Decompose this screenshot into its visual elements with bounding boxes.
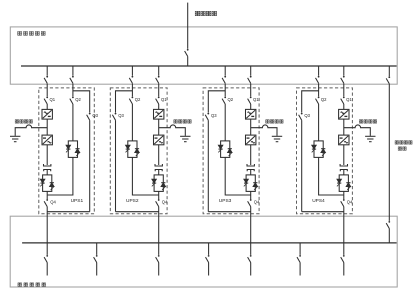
switch: input-cabinet breaker for UPS2 bypass feed	[129, 76, 133, 84]
svg-text:Q2: Q2	[321, 97, 327, 102]
wire: Q2 to bypass static switch of UPS4	[318, 104, 320, 141]
static switch (SCR pair) bypass of UPS1	[66, 141, 80, 158]
switch: input-cabinet breaker for UPS4 rectifier feed	[341, 76, 345, 84]
static switch (SCR pair) main of UPS2	[152, 175, 166, 192]
battery bank symbol (ground-style) of UPS4	[365, 136, 375, 141]
UPS1 cabinet (dashed box)	[39, 88, 95, 214]
wire: output feeder 3 from bus	[158, 243, 160, 255]
wire: static switch to Q4 of UPS3	[250, 191, 252, 199]
wire: rectifier feed into UPS3	[250, 83, 252, 96]
svg-text:Q4: Q4	[347, 199, 353, 204]
svg-text:Q2: Q2	[228, 97, 234, 102]
wire: output feeder 2 tail	[96, 263, 98, 276]
output distribution cabinet 输出配电柜 outline	[10, 216, 397, 287]
wire: UPS3 output down to output bus	[250, 207, 252, 243]
wire: bypass rejoin at output node of UPS1	[47, 157, 73, 195]
wire: bypass to output bus	[388, 229, 390, 243]
switch Q1 (UPS2 rectifier input)	[156, 97, 160, 105]
svg-text:Q1: Q1	[161, 97, 167, 102]
connector (plug) of UPS4	[340, 164, 347, 171]
svg-text:Q3: Q3	[92, 113, 98, 118]
wire: connector to static switch of UPS2	[158, 170, 160, 175]
rectifier AC/DC of UPS1	[42, 109, 52, 119]
output bus	[22, 242, 397, 244]
rectifier AC/DC of UPS3	[246, 109, 256, 119]
inverter DC/AC of UPS1	[42, 135, 52, 145]
wire: UPS4 output down to output bus	[343, 207, 345, 243]
label 输入市电 (mains input)	[195, 11, 216, 15]
wire: input bus drop to UPS2 bypass input	[131, 66, 133, 76]
switch: input-cabinet breaker for UPS2 rectifier feed	[156, 76, 160, 84]
label 旁路 (bypass)	[398, 147, 406, 150]
wire: battery branch with link bump of UPS2	[159, 125, 186, 136]
wire: input bus drop to UPS3 rectifier input	[250, 66, 252, 76]
wire: input bus drop to UPS4 bypass input	[318, 66, 320, 76]
wire: bottom junction of UPS2	[116, 211, 159, 213]
wire: output feeder 5 from bus	[250, 243, 252, 255]
wire: Q3 branch down of UPS3	[207, 120, 209, 212]
switch: output feeder breaker 5	[248, 255, 252, 263]
wire: bypass feed into UPS3	[224, 83, 226, 96]
UPS4 cabinet (dashed box)	[297, 88, 353, 214]
wire: bottom junction of UPS3	[208, 211, 250, 213]
wire: Q2 to bypass static switch of UPS2	[131, 104, 133, 141]
wire: rectifier feed into UPS1	[46, 83, 48, 96]
wire: Q1 to rectifier of UPS1	[46, 104, 48, 109]
svg-text:Q2: Q2	[135, 97, 141, 102]
connector (plug) of UPS2	[155, 164, 162, 171]
wire: bottom junction of UPS4	[302, 211, 344, 213]
wire: static switch to Q4 of UPS4	[343, 191, 345, 199]
wire: UPS1 output down to output bus	[46, 207, 48, 243]
input bus	[21, 65, 397, 67]
input distribution cabinet 输入配电柜 outline	[10, 27, 397, 84]
wire: Q3 branch down of UPS4	[301, 120, 303, 212]
wire: Q1 to rectifier of UPS2	[158, 104, 160, 109]
switch: output feeder breaker 1	[44, 255, 48, 263]
inverter DC/AC of UPS2	[154, 135, 164, 145]
switch: input-cabinet breaker for UPS4 bypass feed	[316, 76, 320, 84]
wire: external bypass drop from input bus	[388, 66, 390, 76]
switch: output feeder breaker 3	[156, 255, 160, 263]
static switch (SCR pair) bypass of UPS4	[312, 141, 326, 158]
wire: output feeder 1 tail	[46, 263, 48, 276]
label 电池开关 (battery switch) of UPS3	[266, 120, 283, 123]
svg-text:Q1: Q1	[50, 97, 56, 102]
wire: Q3 branch down of UPS2	[115, 120, 117, 212]
switch Q1 (UPS4 rectifier input)	[341, 97, 345, 105]
wire: bottom junction of UPS1	[47, 211, 89, 213]
label 电池开关 (battery switch) of UPS1	[15, 120, 32, 123]
switch Q4 (UPS2 output)	[156, 199, 160, 207]
switch: output feeder breaker 4	[206, 255, 210, 263]
switch Q1 (UPS1 rectifier input)	[44, 97, 48, 105]
wire: DC link of UPS2	[158, 119, 160, 135]
wire: Q2 to bypass static switch of UPS3	[224, 104, 226, 141]
UPS3 cabinet (dashed box)	[203, 88, 259, 214]
wire: tee to maintenance branch Q3 of UPS1	[73, 91, 90, 113]
switch Q3 (UPS1 maintenance bypass)	[87, 113, 91, 121]
switch Q2 (UPS4 static bypass input)	[316, 97, 320, 105]
UPS2 cabinet (dashed box)	[110, 88, 167, 214]
svg-text:UPS3: UPS3	[219, 198, 232, 204]
wire: inverter output of UPS4	[343, 145, 345, 165]
label 电池开关 (battery switch) of UPS2	[174, 120, 191, 123]
wire: external maintenance bypass line	[388, 84, 390, 221]
wire: tee to maintenance branch Q3 of UPS3	[208, 91, 225, 113]
connector (plug) of UPS3	[247, 164, 254, 171]
wire: mains input from top	[187, 3, 189, 49]
switch Q4 (UPS1 output)	[44, 199, 48, 207]
wire: output feeder 5 tail	[250, 263, 252, 276]
wire: input bus drop to UPS3 bypass input	[224, 66, 226, 76]
wire: inverter output of UPS1	[46, 145, 48, 165]
label 外接维修 (external maintenance)	[395, 141, 412, 144]
switch Q4 (UPS3 output)	[248, 199, 252, 207]
static switch (SCR pair) main of UPS4	[337, 175, 351, 192]
svg-text:UPS2: UPS2	[126, 198, 139, 204]
wire: bypass rejoin at output node of UPS4	[319, 157, 344, 195]
wire: input bus drop to UPS1 rectifier input	[46, 66, 48, 76]
wire: battery branch with link bump of UPS3	[251, 125, 277, 136]
svg-text:Q1: Q1	[253, 97, 259, 102]
rectifier AC/DC of UPS2	[154, 109, 164, 119]
wire: DC link of UPS4	[343, 119, 345, 135]
wire: main input to bus	[187, 56, 189, 66]
wire: output feeder 7 tail	[343, 263, 345, 276]
switch Q2 (UPS2 static bypass input)	[129, 97, 133, 105]
wire: bypass feed into UPS2	[131, 83, 133, 96]
svg-text:Q3: Q3	[304, 113, 310, 118]
label 电池开关 (battery switch) of UPS4	[359, 120, 376, 123]
rectifier AC/DC of UPS4	[339, 109, 349, 119]
switch Q3 (UPS3 maintenance bypass)	[205, 113, 209, 121]
switch: main input breaker	[185, 49, 189, 57]
wire: connector to static switch of UPS3	[250, 170, 252, 175]
wire: output feeder 7 from bus	[343, 243, 345, 255]
wire: output feeder 4 tail	[208, 263, 210, 276]
static switch (SCR pair) bypass of UPS3	[218, 141, 232, 158]
svg-text:Q4: Q4	[50, 199, 56, 204]
wire: Q3 branch down of UPS1	[89, 120, 91, 212]
battery bank symbol (ground-style) of UPS1	[10, 136, 20, 141]
wire: rectifier feed into UPS2	[158, 83, 160, 96]
wire: inverter output of UPS2	[158, 145, 160, 165]
switch: output feeder breaker 2	[94, 255, 98, 263]
label 输入配电柜 (input distribution cabinet)	[18, 31, 45, 35]
switch: bypass breaker (bottom)	[386, 221, 390, 229]
wire: bypass feed into UPS4	[318, 83, 320, 96]
connector (plug) of UPS1	[44, 164, 51, 171]
static switch (SCR pair) main of UPS3	[244, 175, 258, 192]
wire: output feeder 6 tail	[299, 263, 301, 276]
switch Q2 (UPS3 static bypass input)	[222, 97, 226, 105]
wire: output feeder 1 from bus	[46, 243, 48, 255]
switch: input-cabinet breaker for UPS3 bypass feed	[222, 76, 226, 84]
svg-text:Q3: Q3	[118, 113, 124, 118]
battery bank symbol (ground-style) of UPS2	[180, 136, 190, 141]
svg-text:UPS1: UPS1	[71, 198, 84, 204]
battery bank symbol (ground-style) of UPS3	[272, 136, 282, 141]
wire: static switch to Q4 of UPS1	[46, 191, 48, 199]
wire: output feeder 3 tail	[158, 263, 160, 276]
wire: DC link of UPS1	[46, 119, 48, 135]
switch: output feeder breaker 6	[297, 255, 301, 263]
wire: Q1 to rectifier of UPS4	[343, 104, 345, 109]
static switch (SCR pair) bypass of UPS2	[126, 141, 140, 158]
label 输出配电柜 (output distribution cabinet)	[18, 283, 46, 287]
wire: battery branch with link bump of UPS4	[344, 125, 371, 136]
wire: rectifier feed into UPS4	[343, 83, 345, 96]
wire: Q2 to bypass static switch of UPS1	[72, 104, 74, 141]
switch: output feeder breaker 7	[341, 255, 345, 263]
switch Q1 (UPS3 rectifier input)	[248, 97, 252, 105]
wire: battery branch with link bump of UPS1	[15, 125, 47, 136]
wire: input bus drop to UPS2 rectifier input	[158, 66, 160, 76]
wire: input bus drop to UPS4 rectifier input	[343, 66, 345, 76]
wire: bypass rejoin at output node of UPS2	[132, 157, 158, 195]
switch Q4 (UPS4 output)	[341, 199, 345, 207]
wire: static switch to Q4 of UPS2	[158, 191, 160, 199]
switch Q3 (UPS4 maintenance bypass)	[299, 113, 303, 121]
svg-text:UPS4: UPS4	[312, 198, 325, 204]
svg-text:Q3: Q3	[211, 113, 217, 118]
switch Q3 (UPS2 maintenance bypass)	[112, 113, 116, 121]
wire: connector to static switch of UPS1	[46, 170, 48, 175]
wire: input bus drop to UPS1 bypass input	[72, 66, 74, 76]
svg-text:Q4: Q4	[162, 199, 168, 204]
switch: bypass isolation breaker (top)	[386, 76, 390, 84]
switch: input-cabinet breaker for UPS1 bypass feed	[70, 76, 74, 84]
svg-text:Q1: Q1	[346, 97, 352, 102]
wire: Q1 to rectifier of UPS3	[250, 104, 252, 109]
wire: inverter output of UPS3	[250, 145, 252, 165]
svg-text:Q2: Q2	[75, 97, 81, 102]
static switch (SCR pair) main of UPS1	[40, 175, 54, 192]
wire: output feeder 4 from bus	[208, 243, 210, 255]
inverter DC/AC of UPS3	[246, 135, 256, 145]
wire: DC link of UPS3	[250, 119, 252, 135]
wire: UPS2 output down to output bus	[158, 207, 160, 243]
wire: bypass rejoin at output node of UPS3	[225, 157, 251, 195]
inverter DC/AC of UPS4	[339, 135, 349, 145]
switch: input-cabinet breaker for UPS1 rectifier feed	[44, 76, 48, 84]
wire: output feeder 6 from bus	[299, 243, 301, 255]
wire: bypass feed into UPS1	[72, 83, 74, 96]
wire: output feeder 2 from bus	[96, 243, 98, 255]
wire: tee to maintenance branch Q3 of UPS4	[302, 91, 319, 113]
switch Q2 (UPS1 static bypass input)	[70, 97, 74, 105]
switch: input-cabinet breaker for UPS3 rectifier feed	[248, 76, 252, 84]
wire: tee to maintenance branch Q3 of UPS2	[116, 91, 133, 113]
wire: connector to static switch of UPS4	[343, 170, 345, 175]
svg-text:Q4: Q4	[254, 199, 260, 204]
